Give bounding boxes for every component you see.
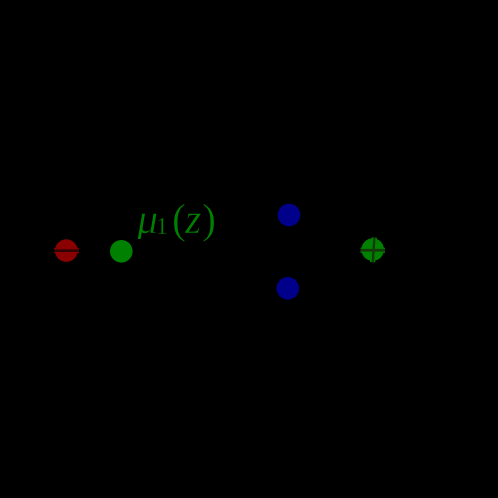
svg-text:μ: μ [136,197,158,243]
svg-text:(: ( [172,197,186,243]
svg-text:z: z [184,197,201,243]
svg-text:1: 1 [156,214,168,240]
svg-text:): ) [202,197,216,243]
